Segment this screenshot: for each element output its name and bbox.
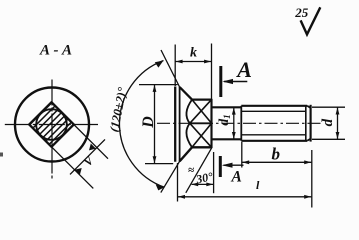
b/l common extension line right [311,150,313,208]
svg-text:A: A [231,169,242,186]
cone bottom edge [180,147,192,161]
hatching of square neck section [24,81,98,156]
extended cone line top (for angle dim) [161,50,180,87]
svg-text:D: D [140,116,157,129]
V dimension extension line (from bottom corner) [52,147,94,189]
section plane tick bottom [219,156,222,177]
d dimension extension line top [312,106,345,108]
end chamfer top [307,106,310,108]
svg-text:k: k [190,45,197,60]
neck front corner edge [190,122,212,124]
square neck (diamond) in section [29,102,74,147]
extended cone line bottom (for angle dim) [161,161,180,192]
head flat face [174,87,176,162]
edge artifact [0,153,3,157]
X diagonals lower neck face [192,123,212,147]
section plane tick top [219,66,222,97]
svg-text:A-A: A-A [39,43,73,59]
svg-text:25: 25 [294,5,309,20]
D dimension extension line bottom [145,163,173,165]
end face [310,105,312,142]
shank bottom edge [212,138,242,140]
thread start line [240,106,242,141]
d1 dimension line [233,107,235,139]
bolt axis centerline [157,122,322,124]
vertical centerline of section view [51,80,53,179]
thread root bottom [241,134,305,136]
d dimension line [337,107,339,139]
neck chamfer line 30deg [186,147,212,193]
k dimension line [175,61,211,63]
V dimension line [70,139,105,174]
svg-text:≈: ≈ [188,165,194,177]
roughness symbol check [301,7,321,34]
angle dimension arc 120deg [119,61,164,188]
section arrow top [224,81,247,83]
l dimension line [178,196,312,198]
svg-text:b: b [271,145,280,164]
D dimension extension line top [139,84,178,86]
shank circle d1 inside square [36,109,67,140]
thread crest top [241,105,307,107]
D dimension line [154,85,156,164]
svg-text:A: A [235,57,252,82]
cone top edge [180,87,192,100]
b dimension line [242,161,311,163]
shank top edge [212,106,242,108]
b dimension extension line left [241,142,243,168]
thread crest bottom [241,140,307,142]
cone-face intersection curve upper [186,100,192,124]
square neck end face [210,99,212,148]
end chamfer bottom [307,139,310,141]
square neck top edge [192,98,212,100]
k dimension extension line left [174,45,176,87]
d dimension extension line bottom [312,138,345,140]
k dimension extension line right [211,44,213,100]
horizontal centerline of section view [5,124,98,126]
svg-text:d: d [320,118,336,126]
X diagonals upper neck face [192,100,212,124]
30deg extension vertical [213,152,215,193]
chamfer line [305,106,307,141]
thread root top [241,110,305,112]
cone-face intersection curve lower [186,123,192,147]
V dimension extension line (from right corner) [74,125,108,159]
head outline circle D (section view) [15,88,89,162]
30deg angle dimension line [192,183,213,185]
section arrow bottom [224,164,244,166]
head cone start edge [179,87,181,162]
square neck bottom edge [192,146,212,148]
l dimension extension line left [177,163,179,202]
